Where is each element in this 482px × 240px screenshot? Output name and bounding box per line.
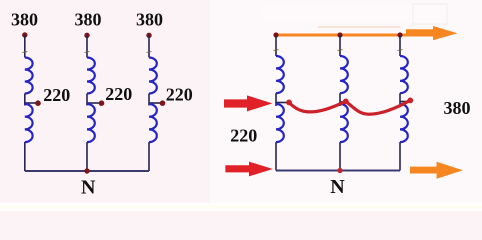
svg-text:380: 380	[75, 10, 102, 30]
winding right A lower	[276, 104, 284, 142]
orange output arrow bottom	[410, 162, 463, 179]
background white strip bottom	[0, 203, 482, 212]
tap wire right A	[276, 102, 287, 104]
tap wire right C	[400, 101, 407, 103]
node dot right C top	[397, 32, 402, 37]
svg-text:220: 220	[43, 85, 70, 105]
coil lead tick C	[146, 52, 151, 53]
wire C bottom lead	[148, 142, 150, 171]
svg-text:N: N	[330, 176, 345, 198]
red jumper dot C	[407, 98, 413, 104]
winding right C upper	[400, 56, 408, 93]
node dot right A top	[273, 32, 278, 37]
coil lead tick right B	[337, 50, 342, 51]
tap dot B	[99, 100, 105, 106]
faint artifact box outline	[413, 4, 447, 24]
tap dot A	[35, 100, 41, 106]
node dot right B top	[337, 32, 342, 37]
wire right B top lead	[339, 35, 341, 56]
svg-text:220: 220	[105, 84, 132, 104]
wire B top lead	[86, 35, 88, 57]
winding right C lower	[400, 104, 408, 142]
svg-text:220: 220	[230, 126, 257, 146]
tap wire C	[149, 102, 162, 104]
winding B upper	[87, 58, 95, 94]
neutral node dot left	[84, 168, 89, 173]
winding right A upper	[276, 56, 284, 93]
wire right A mid	[275, 93, 277, 106]
neutral bus right	[276, 170, 400, 172]
background panel right	[210, 0, 482, 205]
winding C upper	[149, 58, 157, 94]
wire right C mid	[399, 93, 401, 106]
tap wire B	[87, 102, 101, 104]
tap wire right B	[340, 101, 345, 103]
wire right C top lead	[399, 35, 401, 56]
winding right B lower	[340, 104, 348, 142]
wire A top lead	[24, 35, 26, 58]
red jumper dot A	[286, 100, 292, 106]
red jumper wave wire	[289, 100, 410, 114]
winding right B upper	[340, 56, 348, 93]
neutral bus left	[25, 170, 149, 172]
wire right B mid	[339, 93, 341, 106]
svg-text:380: 380	[136, 10, 163, 30]
svg-text:380: 380	[444, 98, 471, 118]
wire right B bottom lead	[339, 142, 341, 170]
wire right C bottom lead	[399, 142, 401, 170]
wire B bottom lead	[86, 142, 88, 171]
winding B lower	[87, 104, 95, 142]
wire C mid	[148, 94, 150, 106]
red input arrow 220 bottom	[225, 162, 272, 177]
coil lead tick A	[22, 52, 27, 53]
wire right A top lead	[275, 35, 277, 56]
orange arrow top output	[406, 26, 458, 40]
node dot C top	[146, 33, 151, 38]
wire A mid	[24, 94, 26, 106]
winding C lower	[149, 104, 157, 142]
coil lead tick right A	[273, 50, 278, 51]
faint artifact rectangle top	[262, 5, 440, 22]
neutral node dot right	[337, 168, 342, 173]
node dot A top	[22, 32, 27, 37]
background cream band bottom	[0, 206, 482, 209]
coil lead tick right C	[397, 50, 402, 51]
red jumper dot B	[343, 99, 349, 105]
wire B mid	[86, 94, 88, 106]
red input arrow 220 top	[224, 95, 272, 111]
wire C top lead	[148, 35, 150, 57]
coil lead tick B	[84, 52, 89, 53]
orange phase line top	[276, 34, 411, 37]
winding A lower	[25, 104, 33, 142]
svg-text:N: N	[81, 177, 96, 199]
wire A bottom lead	[24, 142, 26, 171]
svg-text:380: 380	[11, 10, 38, 30]
svg-text:220: 220	[166, 84, 193, 104]
tap dot C	[160, 100, 166, 106]
winding A upper	[25, 58, 33, 94]
node dot B top	[84, 33, 89, 38]
wire right A bottom lead	[275, 142, 277, 170]
faint artifact orange smear	[318, 26, 400, 28]
tap wire A	[25, 102, 38, 104]
